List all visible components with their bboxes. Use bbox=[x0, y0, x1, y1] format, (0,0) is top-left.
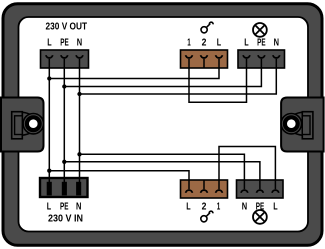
svg-text:L: L bbox=[273, 201, 277, 212]
enclosure inner panel bbox=[19, 17, 309, 232]
svg-text:N: N bbox=[77, 37, 82, 48]
svg-text:N: N bbox=[242, 201, 247, 212]
X2 clamp 2 bbox=[201, 55, 208, 58]
wire L bus bottom (L to X5 terminal L) bbox=[49, 171, 189, 190]
X1 clamp PE bbox=[61, 55, 68, 58]
svg-text:L: L bbox=[217, 37, 221, 48]
svg-text:230 V IN: 230 V IN bbox=[48, 214, 83, 225]
svg-text:L: L bbox=[186, 201, 190, 212]
junction PE top bbox=[62, 84, 66, 88]
switch symbol bottom bbox=[201, 211, 213, 222]
lamp symbol bottom bbox=[253, 210, 267, 224]
svg-text:L: L bbox=[244, 37, 248, 48]
terminal block X2 (switch connector: 1 2 L) bbox=[181, 50, 228, 68]
X5 clamp L bbox=[186, 190, 193, 193]
right mounting latch bbox=[281, 98, 324, 152]
wire N vertical (IN N to OUT N) bbox=[79, 59, 81, 192]
svg-text:PE: PE bbox=[60, 201, 69, 212]
X4 slot N bbox=[76, 182, 81, 196]
X4 slot L bbox=[47, 182, 52, 196]
svg-text:N: N bbox=[76, 201, 81, 212]
junction N bottom bbox=[77, 152, 81, 156]
svg-text:1: 1 bbox=[187, 37, 191, 48]
X2 clamp 2 stub bbox=[203, 59, 205, 68]
X3 clamp N bbox=[273, 55, 280, 58]
X1 clamp N bbox=[76, 55, 83, 58]
X2 clamp L bbox=[216, 55, 223, 58]
wire PE bus top (PE to X3 terminal PE) bbox=[64, 59, 261, 87]
wire PE bus bottom (PE to X6 terminal PE) bbox=[64, 162, 260, 190]
X6 clamp L bbox=[272, 190, 279, 193]
X4 slot PE bbox=[62, 182, 67, 196]
svg-text:230 V OUT: 230 V OUT bbox=[46, 22, 88, 33]
X5 clamp 2 bbox=[201, 190, 208, 193]
wire switched top (X2 terminal 1 to X3 terminal L) bbox=[189, 59, 247, 103]
terminal block X1 (230 V OUT: L PE N) bbox=[41, 50, 89, 68]
wire L bus top (L to X2 terminal L) bbox=[49, 59, 219, 79]
wire N bus top (N to X3 terminal N) bbox=[80, 59, 277, 94]
terminal block X6 (lamp bottom: N PE L) bbox=[237, 180, 284, 198]
terminal block X5 (switch connector bottom: L 2 1) bbox=[181, 180, 228, 198]
X5 clamp 2 stub bbox=[203, 180, 205, 189]
X6 clamp N bbox=[241, 190, 248, 193]
left mounting latch bbox=[1, 98, 44, 152]
terminal block X3 (lamp top: L PE N) bbox=[238, 50, 285, 68]
svg-text:L: L bbox=[47, 201, 51, 212]
svg-text:2: 2 bbox=[202, 201, 207, 212]
X6 clamp PE bbox=[257, 190, 264, 193]
lamp symbol top bbox=[253, 23, 267, 37]
X2 clamp 1 bbox=[186, 55, 193, 58]
junction N top bbox=[77, 92, 81, 96]
wire L vertical (IN L to OUT L) bbox=[48, 59, 50, 192]
X1 clamp L bbox=[46, 55, 53, 58]
terminal block X4 (230 V IN: L PE N) bbox=[40, 178, 88, 197]
junction L top bbox=[47, 76, 51, 80]
junction L bottom bbox=[47, 169, 51, 173]
wire switched bottom (X5 terminal 1 to X6 terminal L) bbox=[219, 147, 275, 190]
X3 clamp L bbox=[243, 55, 250, 58]
svg-text:PE: PE bbox=[257, 37, 266, 48]
svg-text:2: 2 bbox=[202, 37, 207, 48]
X3 clamp PE bbox=[258, 55, 265, 58]
junction PE bottom bbox=[62, 160, 66, 164]
switch symbol top bbox=[201, 22, 213, 33]
svg-text:1: 1 bbox=[217, 201, 221, 212]
svg-text:N: N bbox=[274, 37, 279, 48]
wire N bus bottom (N to X6 terminal N) bbox=[80, 154, 245, 189]
svg-text:L: L bbox=[47, 37, 51, 48]
wire PE vertical (IN PE to OUT PE) bbox=[63, 59, 65, 192]
X5 clamp 1 bbox=[216, 190, 223, 193]
svg-text:PE: PE bbox=[60, 37, 69, 48]
